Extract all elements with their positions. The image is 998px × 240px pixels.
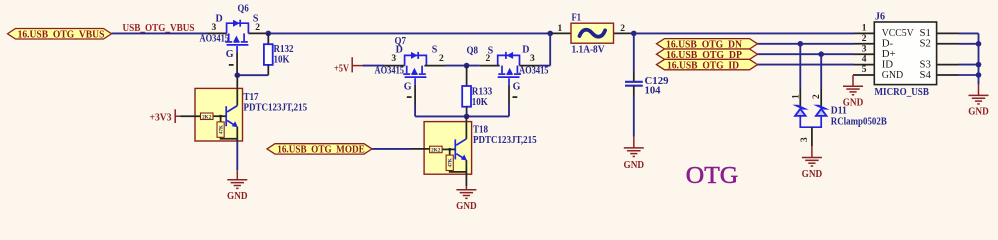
svg-text:+3V3: +3V3 bbox=[150, 112, 172, 123]
svg-text:3: 3 bbox=[862, 44, 867, 54]
svg-text:PDTC123JT,215: PDTC123JT,215 bbox=[473, 135, 537, 146]
svg-text:3: 3 bbox=[212, 23, 217, 33]
svg-text:1: 1 bbox=[862, 24, 867, 34]
svg-text:R132: R132 bbox=[274, 44, 294, 55]
svg-text:MICRO_USB: MICRO_USB bbox=[875, 87, 929, 98]
svg-text:D: D bbox=[522, 45, 529, 56]
svg-text:D: D bbox=[216, 13, 223, 24]
svg-text:3: 3 bbox=[391, 54, 396, 64]
svg-text:GND: GND bbox=[882, 69, 904, 81]
svg-text:2: 2 bbox=[486, 54, 491, 64]
svg-text:AO3415: AO3415 bbox=[200, 33, 230, 44]
svg-text:PDTC123JT,215: PDTC123JT,215 bbox=[244, 102, 308, 113]
svg-text:S4: S4 bbox=[920, 69, 932, 81]
svg-text:D: D bbox=[396, 45, 403, 56]
svg-text:5: 5 bbox=[862, 65, 867, 75]
svg-text:16.USB_OTG_MODE: 16.USB_OTG_MODE bbox=[277, 145, 365, 156]
svg-text:2: 2 bbox=[862, 34, 867, 44]
svg-text:GND: GND bbox=[843, 98, 864, 109]
svg-text:AO3415: AO3415 bbox=[519, 66, 549, 77]
svg-text:10K: 10K bbox=[472, 97, 488, 108]
svg-text:1: 1 bbox=[791, 94, 801, 99]
svg-text:S: S bbox=[432, 45, 438, 56]
svg-text:USB_OTG_VBUS: USB_OTG_VBUS bbox=[123, 23, 195, 34]
svg-text:+5V: +5V bbox=[334, 63, 350, 74]
svg-text:4: 4 bbox=[862, 55, 867, 65]
svg-text:G: G bbox=[226, 49, 234, 60]
svg-text:Q8: Q8 bbox=[467, 46, 479, 57]
svg-text:2: 2 bbox=[620, 24, 625, 34]
svg-text:16.USB_OTG_ID: 16.USB_OTG_ID bbox=[667, 60, 739, 71]
svg-text:10K: 10K bbox=[274, 55, 290, 66]
svg-text:1: 1 bbox=[558, 24, 563, 34]
svg-text:GND: GND bbox=[227, 191, 248, 202]
svg-text:J6: J6 bbox=[875, 12, 885, 23]
svg-text:16.USB_OTG_VBUS: 16.USB_OTG_VBUS bbox=[18, 29, 105, 40]
svg-text:GND: GND bbox=[456, 201, 477, 212]
svg-text:GND: GND bbox=[802, 169, 823, 180]
svg-text:GND: GND bbox=[968, 107, 989, 118]
svg-text:G: G bbox=[404, 81, 412, 92]
svg-text:OTG: OTG bbox=[686, 162, 738, 189]
svg-text:3: 3 bbox=[530, 54, 535, 64]
svg-text:RClamp0502B: RClamp0502B bbox=[831, 116, 887, 127]
svg-text:GND: GND bbox=[624, 160, 645, 171]
svg-text:R133: R133 bbox=[472, 87, 493, 98]
svg-text:3: 3 bbox=[800, 137, 810, 142]
svg-text:Q6: Q6 bbox=[238, 3, 249, 14]
svg-text:S2: S2 bbox=[920, 38, 931, 50]
svg-text:2: 2 bbox=[812, 94, 822, 99]
svg-text:G: G bbox=[513, 81, 521, 92]
svg-text:F1: F1 bbox=[572, 13, 582, 24]
svg-text:2: 2 bbox=[439, 54, 444, 64]
svg-text:104: 104 bbox=[645, 86, 661, 97]
svg-text:AO3415: AO3415 bbox=[375, 66, 405, 77]
svg-text:1.1A-8V: 1.1A-8V bbox=[572, 45, 606, 56]
svg-text:2: 2 bbox=[255, 23, 260, 33]
